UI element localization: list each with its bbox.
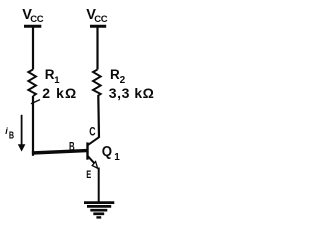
VCC supply bar (left): [24, 25, 41, 28]
wire R2 bottom to collector: [97, 96, 100, 138]
base bar: [86, 142, 88, 159]
svg-text:2 kΩ: 2 kΩ: [42, 85, 77, 101]
label iB: [5, 126, 14, 141]
resistor R1 (zigzag): [28, 70, 36, 97]
svg-text:B: B: [69, 141, 75, 153]
node VCC (right) label: [86, 7, 107, 25]
wire VCC bar to R1 top: [32, 27, 34, 70]
svg-text:B: B: [9, 130, 14, 141]
svg-text:CC: CC: [30, 14, 44, 25]
svg-text:C: C: [89, 124, 96, 138]
current arrow iB: [18, 115, 26, 152]
resistor R2 (zigzag): [93, 70, 101, 97]
resistor R2 label: [110, 67, 126, 86]
wire R1 bottom down to corner: [32, 96, 34, 156]
svg-text:Q: Q: [102, 144, 112, 160]
wire base (horizontal to transistor): [32, 151, 87, 153]
svg-text:1: 1: [114, 152, 120, 163]
collector stroke: [88, 137, 99, 145]
svg-text:3,3 kΩ: 3,3 kΩ: [109, 85, 155, 101]
wire VCC bar to R2 top: [96, 27, 98, 70]
VCC supply bar (right): [90, 25, 106, 28]
svg-text:CC: CC: [94, 14, 108, 25]
transistor Q1: [88, 137, 100, 168]
label Q1: [102, 144, 121, 163]
resistor R1 label: [45, 67, 61, 86]
ground symbol: [84, 203, 114, 218]
emitter arrowhead (open): [92, 162, 97, 169]
wire emitter to ground: [98, 168, 100, 203]
node VCC (left) label: [22, 7, 43, 25]
svg-text:R: R: [110, 67, 120, 82]
emitter stroke: [88, 156, 94, 163]
svg-text:R: R: [45, 67, 55, 82]
tick artifact on left wire: [31, 100, 40, 104]
svg-text:E: E: [86, 169, 91, 181]
